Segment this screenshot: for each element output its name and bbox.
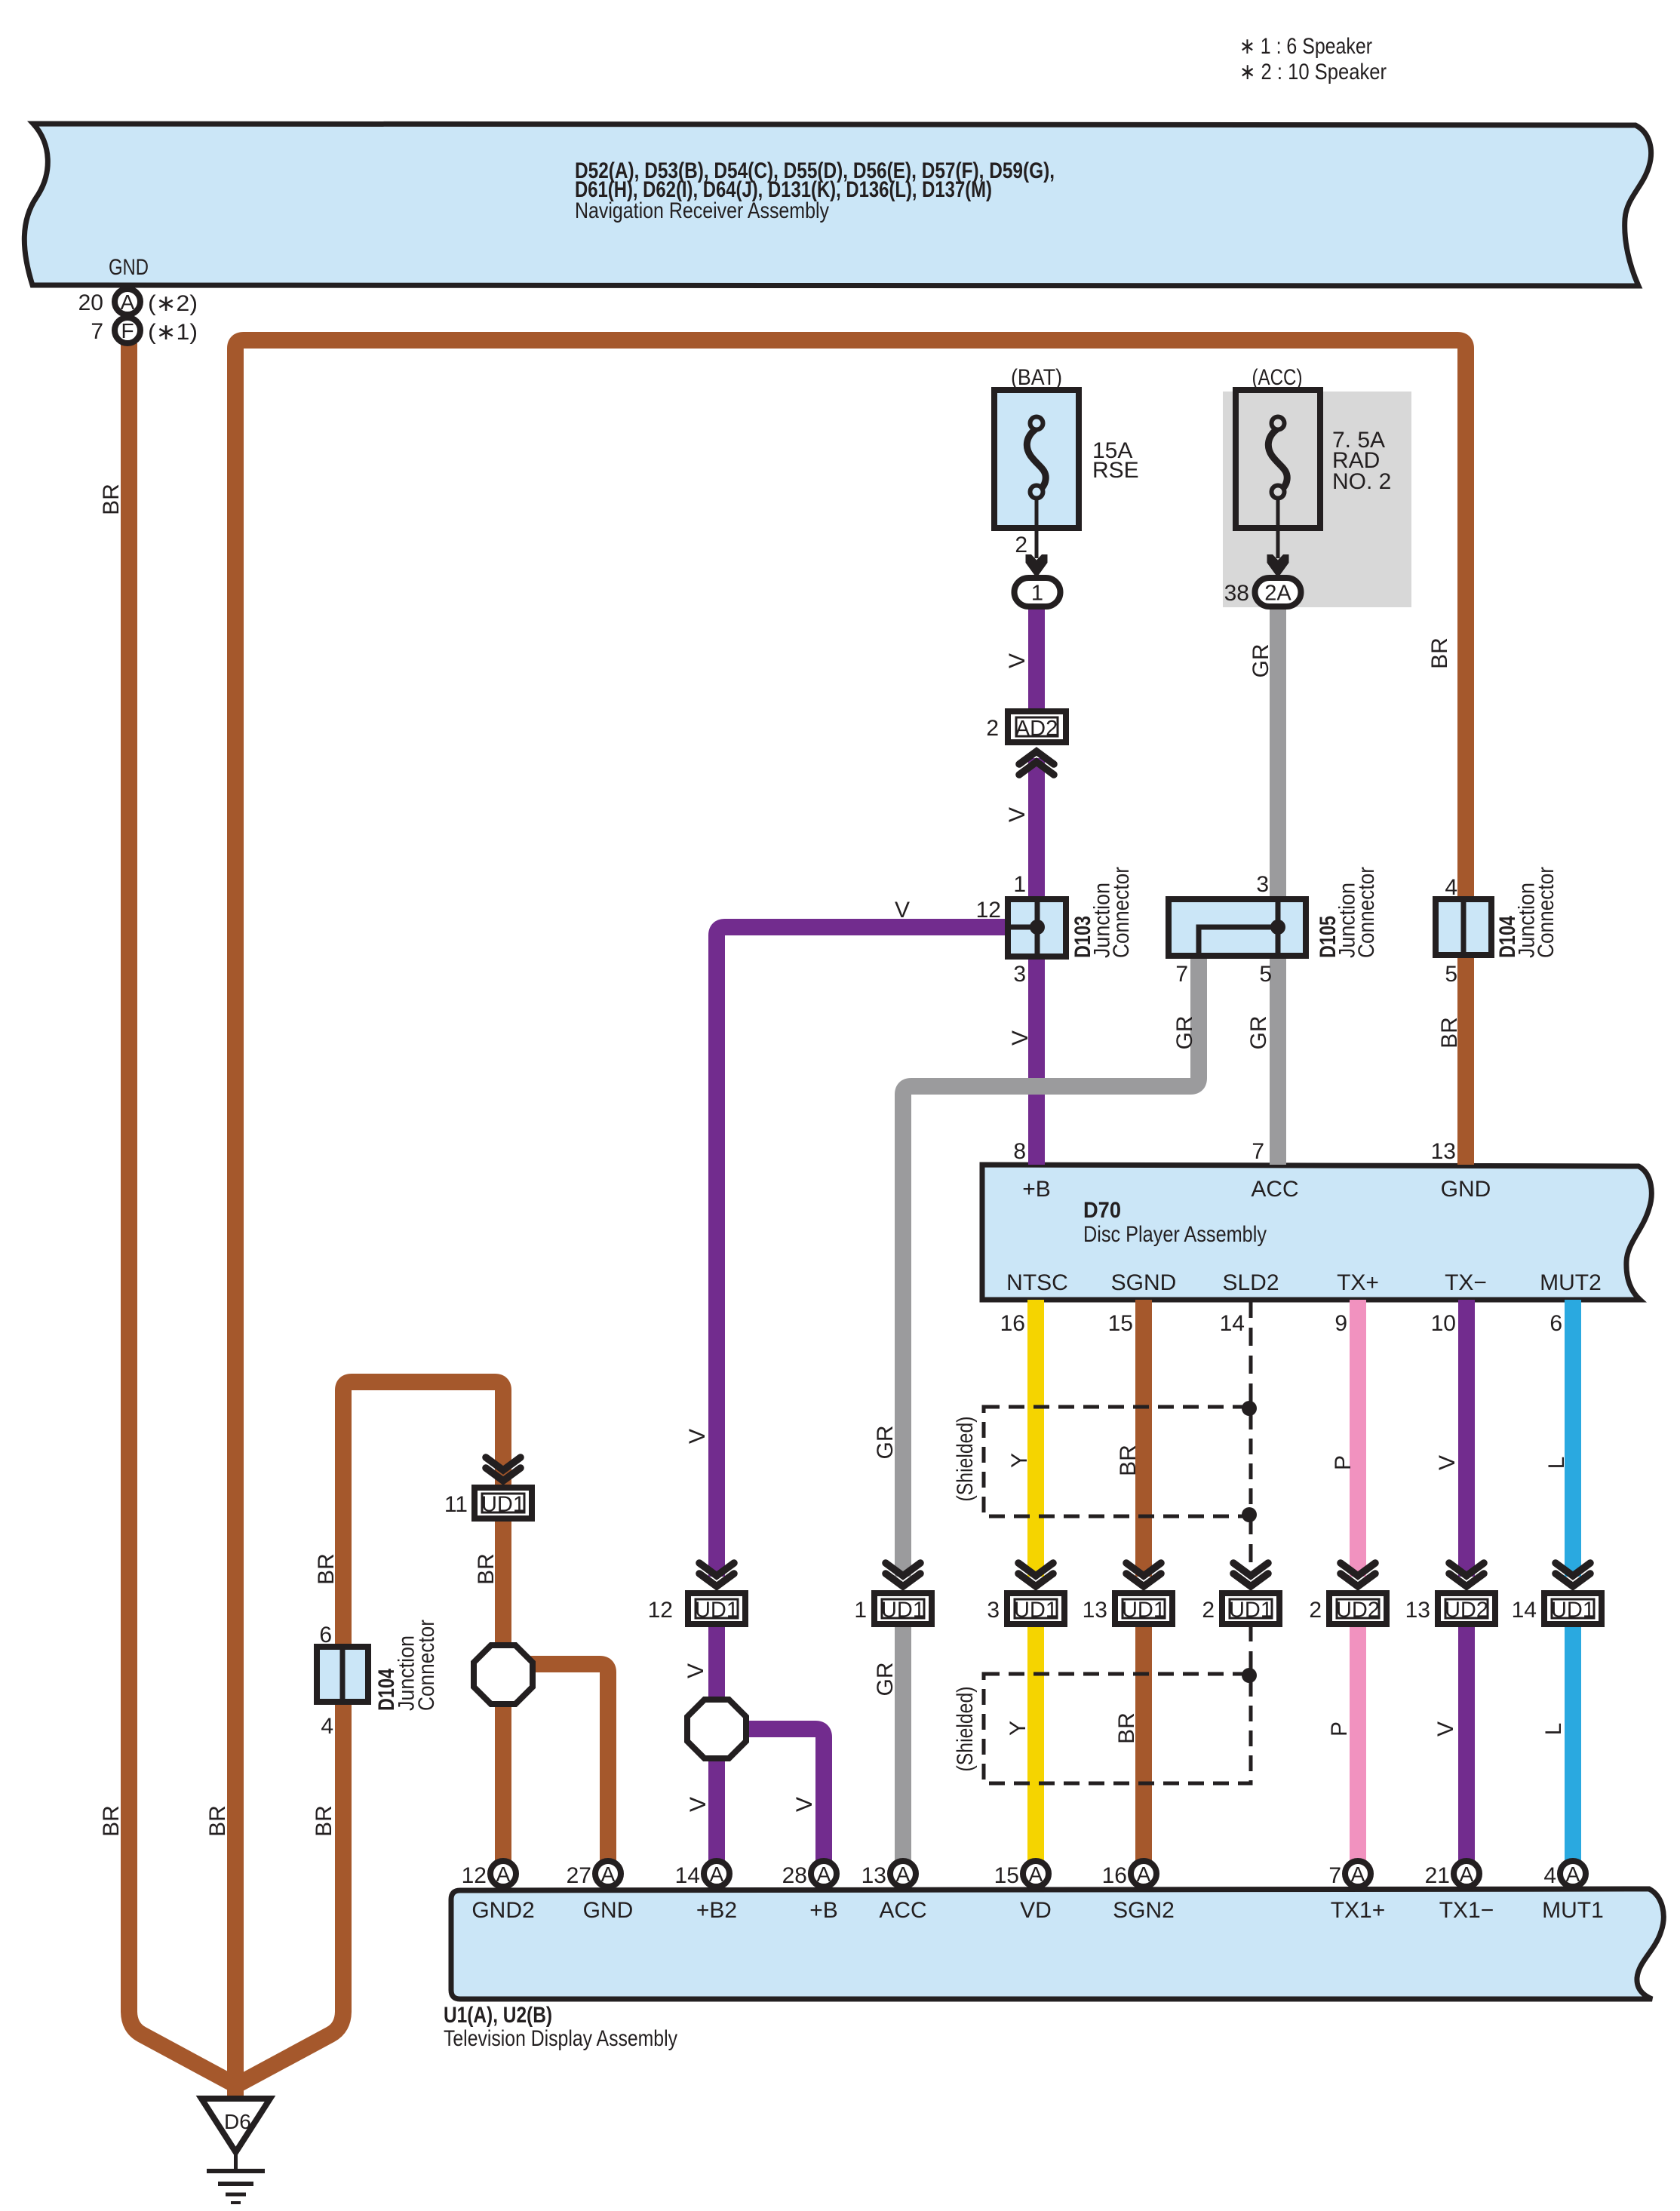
svg-text:13: 13 <box>861 1863 886 1888</box>
svg-text:12: 12 <box>462 1863 487 1888</box>
svg-text:A: A <box>496 1862 511 1886</box>
svg-text:GR: GR <box>873 1426 898 1460</box>
svg-text:V: V <box>1433 1721 1458 1737</box>
fuse 7.5A RAD NO.2 (ACC) <box>1236 390 1320 528</box>
svg-text:+B: +B <box>809 1898 838 1923</box>
svg-text:NO. 2: NO. 2 <box>1332 469 1391 494</box>
connector block D70 Disc Player Assembly <box>982 1165 1651 1300</box>
svg-text:L: L <box>1544 1457 1569 1469</box>
svg-text:GND: GND <box>1441 1177 1491 1202</box>
wire V TX- from D70 pin 10 to terminal 21 TX1- <box>1458 1300 1475 1577</box>
terminal A on television display x=1197 <box>890 1861 916 1887</box>
svg-text:16: 16 <box>1000 1311 1025 1336</box>
svg-text:ACC: ACC <box>1251 1177 1298 1202</box>
connector block D52-D137 Navigation Receiver Assembly <box>24 124 1651 286</box>
svg-text:V: V <box>683 1663 708 1678</box>
svg-text:SGND: SGND <box>1111 1270 1177 1295</box>
svg-text:TX1−: TX1− <box>1439 1898 1494 1923</box>
wire GR from 1 UD1 to terminal 13 ACC <box>895 1623 911 1863</box>
svg-text:4: 4 <box>1543 1863 1556 1888</box>
svg-text:P: P <box>1327 1721 1352 1737</box>
wire V from D103 pin 3 to D70 +B pin 8 <box>1028 955 1045 1165</box>
shield box around NTSC/SGND upper (Shielded) <box>984 1407 1251 1516</box>
svg-text:UD2: UD2 <box>1336 1598 1380 1623</box>
svg-text:F: F <box>121 319 134 342</box>
terminal A on television display x=806 <box>595 1861 621 1887</box>
svg-text:GND: GND <box>583 1898 634 1923</box>
svg-text:8: 8 <box>1013 1139 1026 1164</box>
ground point D6 <box>201 2099 270 2152</box>
svg-text:4: 4 <box>321 1714 333 1739</box>
svg-text:10: 10 <box>1431 1311 1456 1336</box>
svg-text:A: A <box>896 1862 911 1886</box>
svg-text:MUT2: MUT2 <box>1540 1270 1602 1295</box>
svg-text:13: 13 <box>1083 1598 1107 1623</box>
junction connector D104 lower <box>317 1647 368 1702</box>
wire L MUT2 from D70 pin 6 to terminal 4 MUT1 <box>1565 1300 1581 1577</box>
terminal A on television display x=1373 <box>1023 1861 1049 1887</box>
svg-text:Navigation Receiver Assembly: Navigation Receiver Assembly <box>575 198 829 223</box>
svg-text:V: V <box>685 1429 710 1444</box>
wire BR from D104 pin 4 down to splice <box>234 1390 343 2087</box>
svg-text:6: 6 <box>1549 1311 1562 1336</box>
connector 11 UD1 <box>486 1457 521 1470</box>
svg-text:15: 15 <box>994 1863 1019 1888</box>
svg-text:2A: 2A <box>1264 582 1291 606</box>
svg-text:2: 2 <box>1309 1598 1322 1623</box>
svg-text:UD1: UD1 <box>1551 1598 1595 1623</box>
terminal 7 F (*1) on navigation receiver <box>115 318 140 343</box>
svg-text:3: 3 <box>1256 872 1269 897</box>
svg-text:BR: BR <box>314 1553 339 1585</box>
svg-text:UD1: UD1 <box>481 1493 525 1517</box>
connector 14 UD1 <box>1556 1563 1590 1576</box>
shield junction dot upper-bottom <box>1242 1507 1257 1522</box>
svg-text:A: A <box>1029 1862 1043 1886</box>
shield junction dot upper-top <box>1242 1401 1257 1416</box>
svg-text:+B: +B <box>1022 1177 1051 1202</box>
svg-text:BR: BR <box>99 484 124 515</box>
svg-text:GR: GR <box>1172 1016 1197 1050</box>
svg-text:UD1: UD1 <box>881 1598 925 1623</box>
svg-text:A: A <box>121 290 135 314</box>
svg-text:21: 21 <box>1425 1863 1450 1888</box>
svg-text:13: 13 <box>1431 1139 1456 1164</box>
svg-text:(Shielded): (Shielded) <box>953 1687 978 1772</box>
wire BR SGND from D70 pin 15 to terminal 16 SGN2 <box>1135 1300 1152 1577</box>
svg-text:BR: BR <box>1116 1445 1141 1476</box>
svg-text:TX1+: TX1+ <box>1331 1898 1386 1923</box>
terminal A on television display x=1092 <box>811 1861 837 1887</box>
wire GR from fuse RAD NO.2 terminal 2A to D105 pin 3 <box>1270 603 1286 899</box>
svg-text:BR: BR <box>1114 1712 1139 1744</box>
svg-text:1: 1 <box>1031 582 1043 606</box>
svg-text:P: P <box>1331 1455 1356 1470</box>
terminal oval 2A pin 38 <box>1255 578 1301 606</box>
svg-text:UD2: UD2 <box>1445 1598 1488 1623</box>
wire P TX+ from D70 pin 9 to terminal 7 TX1+ <box>1350 1300 1366 1577</box>
connector 1 UD1 <box>886 1563 920 1576</box>
svg-text:27: 27 <box>567 1863 591 1888</box>
wire BR octagon right branch to terminal 27 GND <box>528 1664 608 1863</box>
splice octagon on BR ground wires <box>474 1645 533 1704</box>
svg-text:V: V <box>1005 807 1030 822</box>
svg-text:12: 12 <box>648 1598 673 1623</box>
svg-text:(BAT): (BAT) <box>1011 365 1062 390</box>
svg-text:∗ 2 : 10 Speaker: ∗ 2 : 10 Speaker <box>1239 60 1387 84</box>
connector 12 UD1 <box>699 1563 734 1576</box>
svg-text:TX−: TX− <box>1445 1270 1487 1295</box>
svg-text:BR: BR <box>312 1805 336 1837</box>
svg-text:28: 28 <box>782 1863 807 1888</box>
svg-text:20: 20 <box>78 290 103 315</box>
wire V from fuse RSE terminal 1 to AD2 <box>1028 603 1045 711</box>
svg-text:V: V <box>895 898 910 923</box>
svg-text:A: A <box>1137 1862 1151 1886</box>
connector 13 UD2 <box>1449 1563 1484 1576</box>
splice octagon on V +B wires <box>687 1700 746 1758</box>
svg-text:2: 2 <box>1202 1598 1215 1623</box>
gray highlight panel behind ACC fuse <box>1223 392 1411 607</box>
fuse output arrow to 2A <box>1267 554 1289 578</box>
fuse output arrow pin 2 <box>1026 554 1048 578</box>
svg-text:BR: BR <box>1427 637 1452 669</box>
svg-text:V: V <box>1005 653 1030 668</box>
svg-text:7: 7 <box>91 319 103 344</box>
svg-text:GND: GND <box>109 255 149 280</box>
svg-text:A: A <box>817 1862 831 1886</box>
svg-text:14: 14 <box>675 1863 700 1888</box>
svg-text:38: 38 <box>1224 581 1249 606</box>
svg-text:Television Display Assembly: Television Display Assembly <box>444 2026 677 2051</box>
svg-text:A: A <box>1460 1862 1474 1886</box>
svg-text:16: 16 <box>1102 1863 1127 1888</box>
svg-text:3: 3 <box>1013 962 1026 987</box>
wire BR ground from pin 7/20 to splice <box>129 343 238 2087</box>
svg-text:5: 5 <box>1259 962 1272 987</box>
svg-text:Y: Y <box>1006 1721 1030 1736</box>
svg-text:9: 9 <box>1334 1311 1347 1336</box>
svg-text:7: 7 <box>1252 1139 1264 1164</box>
terminal 20 A (*2) on navigation receiver <box>115 289 140 315</box>
svg-text:SLD2: SLD2 <box>1222 1270 1279 1295</box>
svg-text:14: 14 <box>1512 1598 1537 1623</box>
svg-text:BR: BR <box>474 1553 499 1585</box>
svg-text:BR: BR <box>99 1805 124 1837</box>
svg-text:V: V <box>792 1797 817 1812</box>
wire GR from D105 pin 5 to D70 ACC pin 7 <box>1270 955 1286 1165</box>
connector 13 UD1 <box>1126 1563 1161 1576</box>
svg-text:Y: Y <box>1007 1453 1032 1468</box>
svg-text:SGN2: SGN2 <box>1113 1898 1175 1923</box>
connector 2 UD1 shield <box>1233 1563 1268 1576</box>
svg-text:RSE: RSE <box>1092 458 1139 483</box>
svg-text:NTSC: NTSC <box>1006 1270 1068 1295</box>
svg-text:(ACC): (ACC) <box>1252 365 1303 390</box>
connector 2 UD2 <box>1341 1563 1375 1576</box>
svg-text:UD1: UD1 <box>1122 1598 1166 1623</box>
svg-text:3: 3 <box>987 1598 1000 1623</box>
connector AD2 pin 2 <box>1008 711 1066 742</box>
svg-text:6: 6 <box>319 1623 332 1648</box>
terminal A on television display x=1800 <box>1345 1861 1371 1887</box>
wire BR ground bus frame: down-left, top run, right side down to D70 GND <box>235 340 1466 2105</box>
terminal A on television display x=1516 <box>1131 1861 1156 1887</box>
svg-text:4: 4 <box>1445 875 1457 900</box>
svg-text:MUT1: MUT1 <box>1542 1898 1604 1923</box>
svg-text:GR: GR <box>1246 1016 1271 1050</box>
svg-text:UD1: UD1 <box>1014 1598 1058 1623</box>
svg-text:V: V <box>686 1797 711 1812</box>
svg-text:V: V <box>1435 1455 1460 1470</box>
svg-text:GR: GR <box>873 1663 898 1697</box>
svg-text:2: 2 <box>1015 533 1027 557</box>
svg-text:UD1: UD1 <box>695 1598 739 1623</box>
wire BR hat bridge to 11 UD1 <box>343 1382 503 1485</box>
wire V from AD2 to D103 pin 1 <box>1028 758 1045 899</box>
shield box around VD/SGN2 lower (Shielded) <box>984 1674 1251 1783</box>
svg-text:ACC: ACC <box>879 1898 926 1923</box>
svg-text:GND2: GND2 <box>471 1898 534 1923</box>
chevron arrows into AD2 <box>1019 751 1054 764</box>
connector 3 UD1 <box>1018 1563 1053 1576</box>
wire V from 12 UD1 to octagon splice and terminal 14 +B2 <box>708 1623 725 1863</box>
svg-text:BR: BR <box>205 1805 230 1837</box>
terminal A on television display x=2085 <box>1560 1861 1586 1887</box>
svg-text:5: 5 <box>1445 962 1457 987</box>
svg-text:D6: D6 <box>224 2110 251 2133</box>
svg-text:BR: BR <box>1437 1017 1462 1049</box>
svg-text:15: 15 <box>1108 1311 1133 1336</box>
terminal A on television display x=1944 <box>1454 1861 1479 1887</box>
svg-text:2: 2 <box>986 716 999 741</box>
svg-text:∗ 1 : 6 Speaker: ∗ 1 : 6 Speaker <box>1239 34 1372 59</box>
svg-text:1: 1 <box>1013 872 1026 897</box>
svg-text:7: 7 <box>1328 1863 1341 1888</box>
wire BR from 11 UD1 to ground splice octagon <box>495 1517 511 1648</box>
wire BR octagon to terminal 12 GND2 <box>495 1701 511 1863</box>
junction connector D105 <box>1169 899 1306 956</box>
svg-text:UD1: UD1 <box>1229 1598 1273 1623</box>
svg-text:TX+: TX+ <box>1337 1270 1379 1295</box>
svg-text:GR: GR <box>1248 644 1273 678</box>
wire V branch from D103 pin 12 left and down to 12 UD1 <box>717 927 1008 1577</box>
svg-text:(∗1): (∗1) <box>148 320 198 345</box>
svg-text:VD: VD <box>1020 1898 1052 1923</box>
svg-text:+B2: +B2 <box>696 1898 737 1923</box>
svg-text:U1(A), U2(B): U1(A), U2(B) <box>444 2003 552 2028</box>
shield drain wire SLD2 dashed from D70 pin 14 <box>1249 1300 1253 1408</box>
svg-text:7: 7 <box>1175 962 1188 987</box>
junction connector D104 upper <box>1436 899 1491 955</box>
svg-text:AD2: AD2 <box>1015 717 1058 741</box>
shield junction dot lower-top <box>1242 1668 1257 1683</box>
wire Y NTSC from D70 pin 16 to terminal 15 VD <box>1027 1300 1044 1577</box>
svg-text:V: V <box>1008 1030 1033 1046</box>
svg-text:13: 13 <box>1405 1598 1430 1623</box>
svg-text:L: L <box>1541 1723 1566 1736</box>
svg-text:A: A <box>601 1862 616 1886</box>
terminal oval 1 <box>1015 578 1061 606</box>
wire V octagon right branch to terminal 28 +B <box>742 1729 824 1863</box>
fuse 15A RSE (BAT) <box>994 390 1079 528</box>
svg-text:D70: D70 <box>1083 1198 1121 1223</box>
svg-text:(Shielded): (Shielded) <box>953 1417 978 1502</box>
svg-text:12: 12 <box>976 898 1001 923</box>
svg-text:11: 11 <box>444 1492 468 1517</box>
wire GR from D105 pin 7 down-left to 1 UD1 <box>903 955 1199 1577</box>
connector block U1/U2 Television Display Assembly <box>451 1889 1663 1999</box>
junction connector D103 <box>1008 899 1066 957</box>
svg-text:A: A <box>1351 1862 1365 1886</box>
svg-text:Disc Player Assembly: Disc Player Assembly <box>1083 1222 1267 1247</box>
terminal A on television display x=950 <box>704 1861 729 1887</box>
svg-text:A: A <box>1566 1862 1580 1886</box>
svg-text:(∗2): (∗2) <box>148 291 198 316</box>
svg-text:A: A <box>710 1862 724 1886</box>
terminal A on television display x=667 <box>490 1861 516 1887</box>
svg-text:1: 1 <box>854 1598 867 1623</box>
svg-text:14: 14 <box>1220 1311 1245 1336</box>
